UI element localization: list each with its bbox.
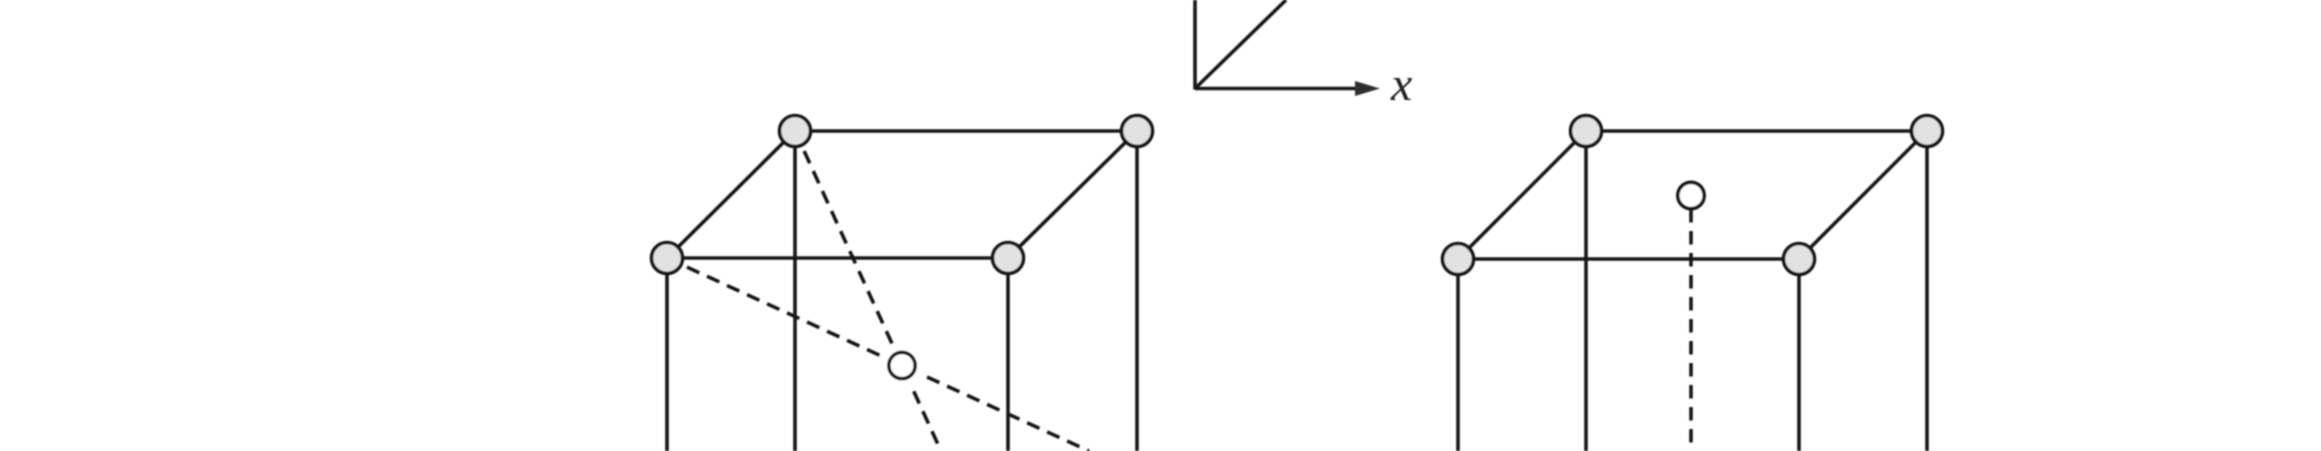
left cell center atom halo (882, 346, 922, 386)
left cell back-right vertical edge (1135, 131, 1139, 451)
left cell center atom open circle (889, 352, 915, 378)
left cell front-right corner atom (993, 243, 1024, 274)
right cell top-right depth edge (1799, 131, 1927, 259)
axis z line (1193, 0, 1197, 90)
left cell body diagonal dashed steep (795, 131, 941, 451)
left cell back top edge (795, 129, 1137, 133)
right cell dashed vertical from face atom (1689, 209, 1693, 451)
right cell front-left vertical edge (1456, 259, 1460, 451)
left cell back-right corner atom (1122, 116, 1153, 147)
left cell body diagonal dashed shallow (667, 258, 1089, 451)
axis x arrowhead (1355, 81, 1380, 96)
right cell front-right vertical edge (1797, 259, 1801, 451)
left cell back-left corner atom (780, 116, 811, 147)
right cell back-right vertical edge (1925, 131, 1929, 451)
right cell back top edge (1586, 129, 1927, 133)
left cell front-left vertical edge (665, 258, 669, 451)
left cell front-left corner atom (652, 243, 683, 274)
left cell front top edge (667, 256, 1008, 260)
right cell back-left corner atom (1571, 116, 1602, 147)
left cell front-right vertical edge (1006, 258, 1010, 451)
right cell front top edge (1458, 257, 1799, 261)
right cell back-right corner atom (1912, 116, 1943, 147)
svg-text:x: x (1390, 58, 1412, 111)
left cell top-left depth edge (667, 131, 795, 258)
right cell front-left corner atom (1443, 244, 1474, 275)
left cell back-left vertical edge (793, 131, 797, 451)
right cell back-left vertical edge (1584, 131, 1588, 451)
right cell top-left depth edge (1458, 131, 1586, 259)
right cell front-right corner atom (1784, 244, 1815, 275)
right cell top-face center atom open circle (1678, 182, 1704, 208)
axis x line (1195, 87, 1358, 91)
left cell top-right depth edge (1008, 131, 1137, 258)
axis y diagonal (1195, 0, 1286, 89)
